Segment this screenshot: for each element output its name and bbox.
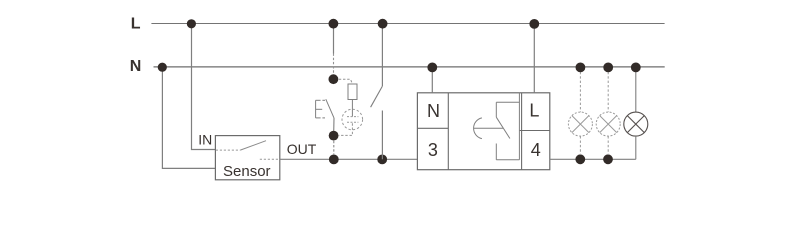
relay device box [417,93,549,170]
wire N rail to relay terminal N [431,67,433,92]
OUT wire from sensor to relay terminal 3 [280,158,418,160]
wire L rail to sensor IN [192,24,216,150]
dashed wire glow lamp to pushbutton bottom node [339,123,353,135]
pushbutton contact blade [326,99,334,118]
junction lamp1 bottom [575,154,585,164]
junction on N rail at x=162 [158,63,167,72]
relay internal contact frame [496,93,519,160]
svg-text:L: L [131,16,141,33]
svg-text:Sensor: Sensor [223,163,271,180]
relay left cell horizontal divider [417,127,448,129]
pushbutton actuator bracket [316,100,325,118]
svg-text:L: L [529,100,539,120]
junction OUT wire / pushbutton branch [329,155,339,165]
lamp E3 [624,67,648,159]
junction on N rail at x=432 [427,63,437,73]
relay actuator arc [474,118,482,139]
wall switch: wire from L rail [381,24,383,86]
sensor internal input wire (dashed) [216,149,241,151]
lamp E2 (optional, dashed) [596,67,620,155]
svg-text:OUT: OUT [287,141,317,157]
wire L rail to relay terminal L [533,24,535,93]
glow lamp top electrode [347,116,358,118]
svg-text:N: N [427,101,440,121]
junction on L rail at x=534 [529,19,539,29]
sensor internal output wire (dashed) [260,158,280,160]
relay terminal cell divider right [521,93,523,170]
junction on N rail lamp3 [631,63,641,73]
L rail [151,23,664,25]
sensor switch contact blade [240,141,266,150]
relay terminal cell divider left [447,93,449,170]
wire pushbutton blade to lower node [333,118,335,133]
junction on L rail at x=333 [329,19,339,29]
relay actuator line [474,127,503,129]
lamp E1 (optional, dashed) [568,67,592,155]
junction on L rail at x=191 [187,19,196,28]
sensor box [215,136,279,180]
wall switch lower wire to OUT line [381,111,383,160]
svg-text:4: 4 [531,140,541,160]
svg-text:IN: IN [198,132,212,148]
resistor (glow lamp series resistor) [348,84,357,100]
relay right cell horizontal divider [519,130,549,132]
wire resistor to glow lamp [351,100,353,117]
junction on L rail at x=382 [378,19,388,29]
glow lamp bottom electrode [347,121,358,123]
node: pushbutton top [329,74,339,84]
wire relay terminal 4 to lamps [550,158,636,160]
wire N rail to sensor lower input [162,67,215,168]
relay contact blade [496,117,510,138]
wall switch blade [371,86,383,107]
junction on N rail lamp2 [603,63,613,73]
junction OUT wire / wall switch branch [377,155,387,165]
junction lamp2 bottom [603,154,613,164]
junction on N rail lamp1 [576,63,586,73]
wire L rail down to pushbutton (dashed part) [333,54,335,76]
svg-text:3: 3 [428,140,438,160]
wire L rail down to pushbutton (solid part) [333,24,335,54]
node: pushbutton bottom [329,131,339,141]
dashed wire pushbutton bottom to OUT line [333,141,335,155]
N rail [154,66,665,68]
glow lamp (dashed circle) [342,109,363,130]
dashed wire top node to resistor [339,79,353,84]
svg-text:N: N [130,58,142,75]
